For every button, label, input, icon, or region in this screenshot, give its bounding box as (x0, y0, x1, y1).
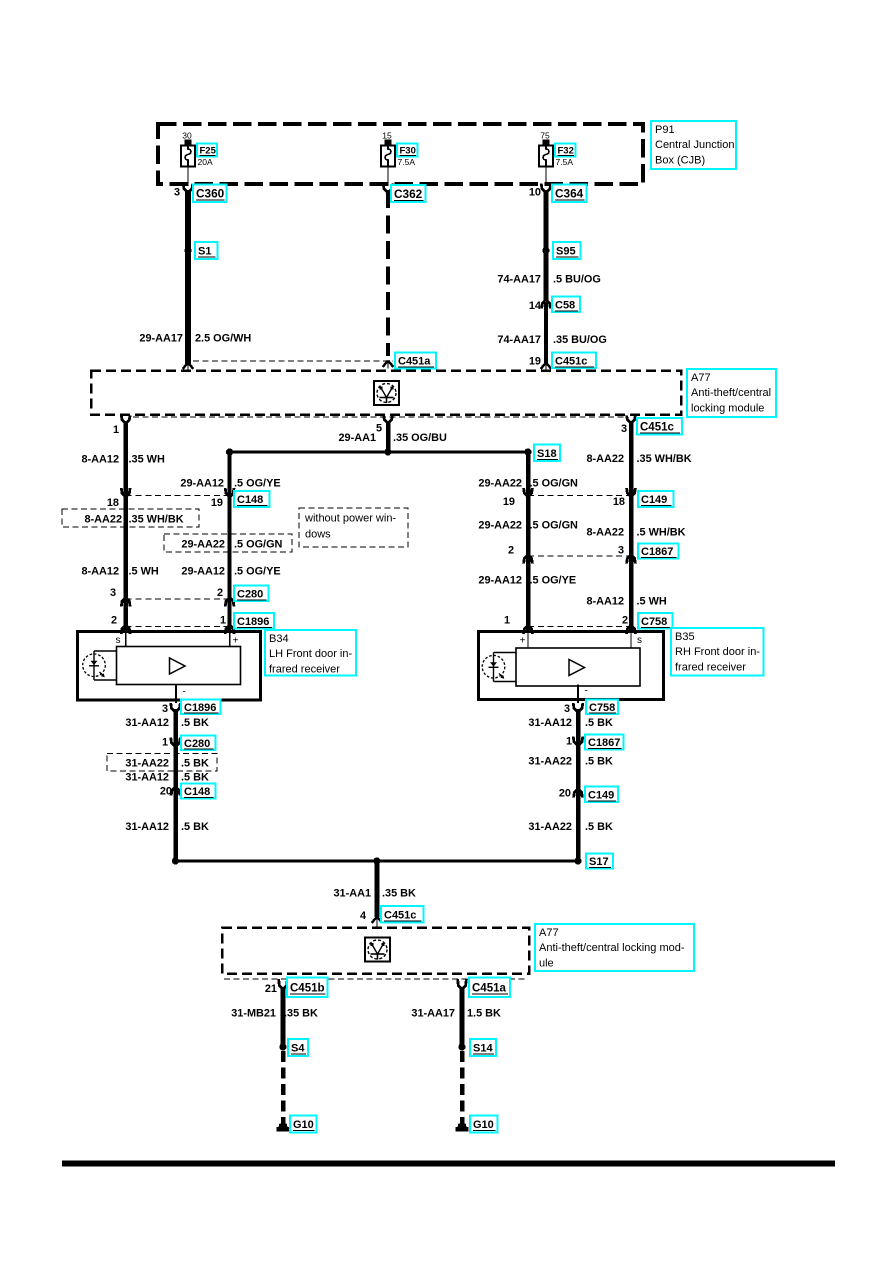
svg-text:C758: C758 (589, 702, 615, 714)
svg-text:31-AA22: 31-AA22 (125, 758, 169, 770)
wire 8-AA12 .35 WH (A77 pin 1 to B34) (123, 421, 128, 631)
svg-text:31-AA12: 31-AA12 (125, 772, 169, 784)
svg-text:4: 4 (360, 910, 366, 922)
svg-text:B35: B35 (675, 631, 695, 643)
connector C149 pin 20 below B35 (559, 787, 618, 803)
A77 connector C451a lower (458, 978, 510, 998)
svg-text:.5 WH: .5 WH (129, 566, 159, 578)
svg-text:Anti-theft/central: Anti-theft/central (691, 387, 771, 399)
svg-text:S1: S1 (198, 246, 211, 258)
C148 pin 18 (107, 488, 130, 509)
connector C758 pin 3 below B35 (564, 700, 618, 716)
svg-text:31-MB21: 31-MB21 (231, 1008, 276, 1020)
splice S95 (542, 242, 580, 259)
junction node middle (384, 448, 391, 455)
module A77 boundary lower (dashed) (222, 928, 529, 974)
wire label 74-AA17 .5 BU/OG (497, 274, 600, 286)
wire label 29-AA1 .35 OG/BU (338, 432, 447, 444)
A77 pin 1 (113, 416, 130, 437)
svg-text:C451a: C451a (398, 356, 431, 368)
C280 pin 2 (217, 587, 234, 607)
wire 74-AA17 .35 BU/OG (C58 to C451c) (544, 302, 548, 364)
wire label 29-AA12 .5 OG/YE lower (181, 566, 280, 578)
svg-text:.5 OG/YE: .5 OG/YE (530, 575, 577, 587)
fuse F32 label 7.5A (555, 144, 576, 168)
svg-text:S18: S18 (537, 448, 557, 460)
svg-text:29-AA12: 29-AA12 (181, 566, 225, 578)
connector C1867 label (638, 544, 679, 559)
connector C758 label (638, 613, 673, 629)
svg-text:s: s (116, 635, 121, 646)
svg-text:A77: A77 (539, 927, 559, 939)
svg-text:C362: C362 (394, 187, 423, 201)
svg-text:14: 14 (529, 300, 541, 312)
svg-text:29-AA22: 29-AA22 (181, 539, 225, 551)
B35 pin s lead (631, 633, 642, 648)
svg-text:C148: C148 (237, 494, 263, 506)
svg-text:19: 19 (211, 497, 223, 509)
svg-text:+: + (520, 636, 526, 647)
svg-text:29-AA12: 29-AA12 (478, 575, 522, 587)
svg-text:.5 OG/YE: .5 OG/YE (234, 566, 281, 578)
wire label 31-MB21 .35 BK (231, 1008, 318, 1020)
svg-text:29-AA17: 29-AA17 (139, 333, 183, 345)
svg-text:8-AA12: 8-AA12 (81, 566, 119, 578)
svg-text:15: 15 (382, 131, 392, 141)
wire label 31-AA17 1.5 BK (411, 1008, 501, 1020)
fuse F30 label 7.5A (397, 144, 418, 168)
svg-text:2.5 OG/WH: 2.5 OG/WH (195, 333, 251, 345)
wire 31-AA22 .5 BK (B35 down) (576, 709, 581, 861)
module B34 LH front door infrared receiver box (78, 632, 261, 701)
connector C451a into A77 (383, 353, 436, 369)
wire 8-AA22 .35 WH/BK (A77 pin 3 to B35) (629, 421, 634, 631)
dashed option label 29-AA22 .5 OG/GN (164, 534, 292, 552)
wire label 29-AA22 .5 OG/GN lower (478, 520, 578, 532)
splice S17 (574, 854, 613, 869)
svg-text:C280: C280 (184, 738, 210, 750)
svg-text:19: 19 (503, 496, 515, 508)
connector C360 pin 3 (174, 184, 227, 203)
svg-text:74-AA17: 74-AA17 (497, 274, 541, 286)
connector C451c pin 19 (529, 353, 596, 371)
wire C362 to C451a (dashed) (386, 190, 390, 356)
svg-text:C451c: C451c (640, 422, 674, 434)
B35 minus lead (578, 685, 588, 704)
fuse F30 (pin 15) (381, 131, 395, 187)
svg-text:C1867: C1867 (641, 546, 673, 558)
svg-text:1: 1 (220, 615, 226, 627)
svg-text:B34: B34 (269, 633, 289, 645)
svg-text:G10: G10 (293, 1119, 314, 1131)
svg-text:1: 1 (504, 615, 510, 627)
fuse F25 (pin 30) (181, 131, 195, 187)
wire label 31-AA22 .5 BK right (528, 756, 613, 768)
svg-text:3: 3 (174, 187, 180, 199)
internal connection symbol in A77 (374, 381, 399, 405)
A77 pin 5 (376, 416, 392, 435)
module B35 RH front door infrared receiver box (479, 632, 664, 700)
svg-text:21: 21 (265, 983, 277, 995)
svg-text:3: 3 (162, 703, 168, 715)
svg-text:.5 OG/GN: .5 OG/GN (530, 478, 579, 490)
svg-text:74-AA17: 74-AA17 (497, 334, 541, 346)
svg-text:S17: S17 (589, 856, 609, 868)
svg-text:without power win-: without power win- (304, 513, 396, 525)
svg-text:C451c: C451c (384, 909, 416, 921)
wire 31-AA17 1.5 BK (C451a to S14) (460, 987, 465, 1047)
svg-text:C58: C58 (555, 299, 575, 311)
svg-text:.5 OG/GN: .5 OG/GN (530, 520, 579, 532)
svg-text:20A: 20A (198, 157, 213, 167)
svg-text:C148: C148 (184, 786, 210, 798)
svg-text:3: 3 (621, 423, 627, 435)
connector C451c pin 4 into A77 (360, 906, 424, 928)
C149 pin 19 (503, 488, 533, 508)
wire label 8-AA22 .35 WH/BK (586, 453, 691, 465)
svg-text:7.5A: 7.5A (556, 157, 574, 167)
label box B35 RH Front door infrared receiver (671, 628, 764, 676)
svg-text:29-AA12: 29-AA12 (180, 478, 224, 490)
svg-text:1: 1 (113, 424, 119, 436)
junction node left corner (226, 448, 233, 455)
svg-text:s: s (637, 635, 642, 646)
svg-text:dows: dows (305, 529, 331, 541)
svg-text:+: + (233, 636, 239, 647)
wire 31-MB21 .35 BK (C451b to S4) (281, 987, 286, 1047)
svg-text:C364: C364 (555, 187, 584, 201)
note box without power windows (299, 508, 408, 547)
wire label 29-AA12 .5 OG/YE right (478, 575, 576, 587)
connector C148 pin 20 below B34 (160, 784, 216, 799)
svg-text:C758: C758 (641, 616, 667, 628)
connector C1867 pin 1 below B35 (566, 735, 624, 750)
wire 31-AA1 .35 BK (bus to A77) (375, 861, 380, 917)
svg-text:C1867: C1867 (588, 737, 620, 749)
svg-text:G10: G10 (473, 1119, 494, 1131)
svg-text:.35 BK: .35 BK (382, 888, 416, 900)
wire 31-AA12 .5 BK (B34 down) (173, 709, 178, 861)
wire label 31-AA12 .5 BK (3) (125, 821, 209, 833)
connector C149 line (528, 495, 631, 497)
svg-text:.35 BK: .35 BK (284, 1008, 318, 1020)
wire label 8-AA12 .5 WH (81, 566, 158, 578)
wire 74-AA17 .5 BU/OG (C364 to C58) (544, 190, 549, 300)
C1896 pin 2 (111, 615, 130, 635)
svg-text:20: 20 (559, 788, 571, 800)
internal connection symbol in lower A77 (365, 938, 390, 962)
A77 pin 21 connector C451b (265, 978, 328, 998)
fuse F25 label 20A (197, 144, 217, 168)
splice S1 (184, 242, 217, 259)
connector C149 label (638, 491, 674, 507)
B35 pin + lead (520, 633, 528, 648)
C1896 pin 1 (220, 615, 234, 635)
svg-text:.5 WH/BK: .5 WH/BK (637, 527, 686, 539)
C1867 pin 3 (618, 545, 635, 564)
connector C280 line (126, 598, 230, 600)
svg-text:.5 BK: .5 BK (181, 758, 209, 770)
wire label 8-AA12 .5 WH right (586, 596, 666, 608)
junction bus wire (230, 451, 528, 454)
svg-text:RH Front door in-: RH Front door in- (675, 646, 760, 658)
svg-text:C149: C149 (588, 789, 614, 801)
wire label 8-AA12 .35 WH (81, 454, 164, 466)
svg-text:29-AA22: 29-AA22 (478, 520, 522, 532)
svg-text:8-AA12: 8-AA12 (586, 596, 624, 608)
thin connector line C451a inside top edge (193, 360, 393, 362)
A77 pin 3 connector C451c (621, 416, 682, 436)
B35 receiver internals (photodiode and amplifier) (482, 648, 640, 686)
wire label 29-AA12 .5 OG/YE (180, 478, 280, 490)
thin connector line C451c below A77 (133, 416, 627, 418)
C149 pin 18 (613, 488, 636, 508)
svg-text:C360: C360 (196, 187, 225, 201)
svg-text:-: - (183, 687, 186, 698)
wire label 8-AA22 .5 WH/BK (586, 527, 685, 539)
svg-text:31-AA1: 31-AA1 (333, 888, 371, 900)
svg-text:20: 20 (160, 786, 172, 798)
wire 29-AA1 .35 OG/BU (pin 5 to junction) (386, 421, 391, 453)
wire label 31-AA12 .5 BK (2) (125, 772, 209, 784)
dashed wire S14 to ground G10 (460, 1051, 465, 1124)
svg-text:S95: S95 (556, 246, 576, 258)
svg-text:18: 18 (613, 496, 625, 508)
svg-text:.5 OG/GN: .5 OG/GN (234, 539, 283, 551)
svg-text:.35 WH: .35 WH (129, 454, 165, 466)
connector C1867 line (528, 555, 631, 557)
svg-text:31-AA22: 31-AA22 (528, 756, 572, 768)
svg-text:31-AA12: 31-AA12 (125, 717, 169, 729)
svg-text:frared receiver: frared receiver (675, 661, 746, 673)
svg-text:31-AA12: 31-AA12 (125, 821, 169, 833)
connector C280 label (234, 586, 269, 602)
svg-text:3: 3 (564, 703, 570, 715)
svg-text:C280: C280 (237, 588, 263, 600)
svg-text:ule: ule (539, 957, 554, 969)
fuse F32 (pin 75) (539, 131, 553, 187)
svg-text:18: 18 (107, 497, 119, 509)
C758 pin 2 (622, 615, 635, 635)
svg-text:.5 OG/YE: .5 OG/YE (234, 478, 281, 490)
svg-text:C149: C149 (641, 494, 667, 506)
wire A entry into A77 (183, 363, 194, 371)
wire label 31-AA12 .5 BK right (528, 717, 613, 729)
svg-text:8-AA22: 8-AA22 (586, 453, 624, 465)
svg-text:3: 3 (110, 587, 116, 599)
svg-text:.35 WH/BK: .35 WH/BK (637, 453, 692, 465)
svg-text:.5 BK: .5 BK (181, 821, 209, 833)
svg-text:.5 BK: .5 BK (585, 717, 613, 729)
dashed wire S4 to ground G10 (281, 1051, 286, 1124)
svg-text:A77: A77 (691, 372, 711, 384)
ground bus wire (176, 860, 579, 863)
wire 29-AA12 .5 OG/YE (junction to B34) (228, 452, 232, 631)
C280 pin 3 (110, 587, 130, 607)
wire label 31-AA1 .35 BK (333, 888, 416, 900)
svg-text:2: 2 (111, 615, 117, 627)
wire label 31-AA22 .5 BK right (2) (528, 821, 613, 833)
svg-text:C451b: C451b (290, 983, 325, 995)
module A77 boundary (dashed) (91, 371, 681, 415)
ground G10 left (277, 1116, 317, 1133)
svg-text:8-AA22: 8-AA22 (84, 514, 122, 526)
C758 pin 1 (504, 615, 532, 635)
connector C362 (383, 184, 425, 203)
C148 pin 19 (211, 488, 234, 509)
label box A77 Anti-theft/central locking module lower (535, 924, 694, 971)
svg-text:.5 BK: .5 BK (585, 756, 613, 768)
connector C758 line (528, 626, 631, 628)
wire 29-AA22 .5 OG/GN (S18 to B35) (526, 452, 531, 631)
dashed option label 31-AA22 .5 BK (107, 754, 217, 772)
wire label 31-AA12 .5 BK (125, 717, 209, 729)
label box P91 Central Junction Box (CJB) (651, 121, 736, 169)
svg-text:8-AA22: 8-AA22 (586, 527, 624, 539)
svg-text:locking module: locking module (691, 402, 764, 414)
svg-text:.5 BK: .5 BK (585, 821, 613, 833)
svg-text:31-AA12: 31-AA12 (528, 717, 572, 729)
connector C1896 line (126, 626, 230, 628)
svg-text:5: 5 (376, 423, 382, 435)
svg-text:1: 1 (162, 737, 168, 749)
wire label 29-AA17 2.5 OG/WH (139, 333, 251, 345)
svg-text:.5 BU/OG: .5 BU/OG (553, 274, 601, 286)
B34 minus lead (176, 685, 186, 704)
ground G10 right (456, 1116, 498, 1133)
svg-text:10: 10 (529, 187, 541, 199)
svg-text:29-AA1: 29-AA1 (338, 432, 376, 444)
svg-text:Box (CJB): Box (CJB) (655, 154, 705, 166)
svg-text:19: 19 (529, 356, 541, 368)
svg-text:1.5 BK: 1.5 BK (467, 1008, 501, 1020)
svg-text:Central Junction: Central Junction (655, 139, 735, 151)
svg-text:2: 2 (508, 545, 514, 557)
svg-text:frared receiver: frared receiver (269, 663, 340, 675)
svg-text:.5 BK: .5 BK (181, 717, 209, 729)
svg-text:C451c: C451c (555, 355, 587, 367)
junction node lower middle (373, 857, 380, 864)
svg-text:75: 75 (540, 131, 550, 141)
svg-text:C1896: C1896 (184, 702, 216, 714)
connector C148 label (234, 491, 270, 507)
svg-text:LH Front door in-: LH Front door in- (269, 648, 352, 660)
wire label 29-AA22 .5 OG/GN (478, 478, 578, 490)
splice S18 (524, 445, 560, 462)
svg-text:-: - (585, 686, 588, 697)
svg-text:.5 WH: .5 WH (637, 596, 667, 608)
C1867 pin 2 (508, 545, 532, 564)
connector C58 pin 14 (529, 297, 580, 313)
svg-text:S4: S4 (291, 1043, 305, 1055)
junction node lower left (172, 857, 179, 864)
svg-text:2: 2 (217, 587, 223, 599)
svg-text:.35 BU/OG: .35 BU/OG (553, 334, 607, 346)
connector C364 pin 10 (529, 184, 587, 203)
svg-text:.35 OG/BU: .35 OG/BU (393, 432, 447, 444)
wire 29-AA17 2.5 OG/WH (C360 to A77) (185, 190, 191, 364)
svg-text:30: 30 (182, 131, 192, 141)
splice S4 (279, 1039, 308, 1056)
svg-text:1: 1 (566, 736, 572, 748)
svg-text:P91: P91 (655, 124, 675, 136)
B34 pin s lead (116, 633, 126, 647)
connector C280 pin 1 below B34 (162, 736, 216, 751)
svg-text:3: 3 (618, 545, 624, 557)
bottom border rule (62, 1161, 835, 1167)
svg-text:.35 WH/BK: .35 WH/BK (129, 514, 184, 526)
label box B34 LH Front door infrared receiver (265, 630, 356, 676)
connector C1896 label (234, 613, 274, 629)
svg-text:31-AA22: 31-AA22 (528, 821, 572, 833)
wire label 74-AA17 .35 BU/OG (497, 334, 606, 346)
B34 pin + lead (230, 633, 239, 647)
B34 receiver internals (photodiode and amplifier) (83, 647, 241, 685)
Central Junction Box P91 boundary (dashed) (158, 124, 643, 184)
connector C148 line (126, 495, 230, 497)
splice S14 (458, 1039, 496, 1056)
label box A77 Anti-theft/central locking module (687, 369, 776, 417)
svg-text:8-AA12: 8-AA12 (81, 454, 119, 466)
svg-text:29-AA22: 29-AA22 (478, 478, 522, 490)
connector C1896 pin 3 below B34 (162, 700, 221, 716)
svg-text:Anti-theft/central locking mod: Anti-theft/central locking mod- (539, 942, 685, 954)
svg-text:2: 2 (622, 615, 628, 627)
svg-text:C451a: C451a (472, 983, 506, 995)
svg-text:C1896: C1896 (237, 616, 269, 628)
svg-text:7.5A: 7.5A (398, 157, 416, 167)
thin connector line below lower A77 (224, 978, 527, 980)
dashed option label 8-AA22 .35 WH/BK (62, 509, 199, 527)
svg-text:31-AA17: 31-AA17 (411, 1008, 455, 1020)
svg-text:S14: S14 (473, 1043, 493, 1055)
svg-text:.5 BK: .5 BK (181, 772, 209, 784)
